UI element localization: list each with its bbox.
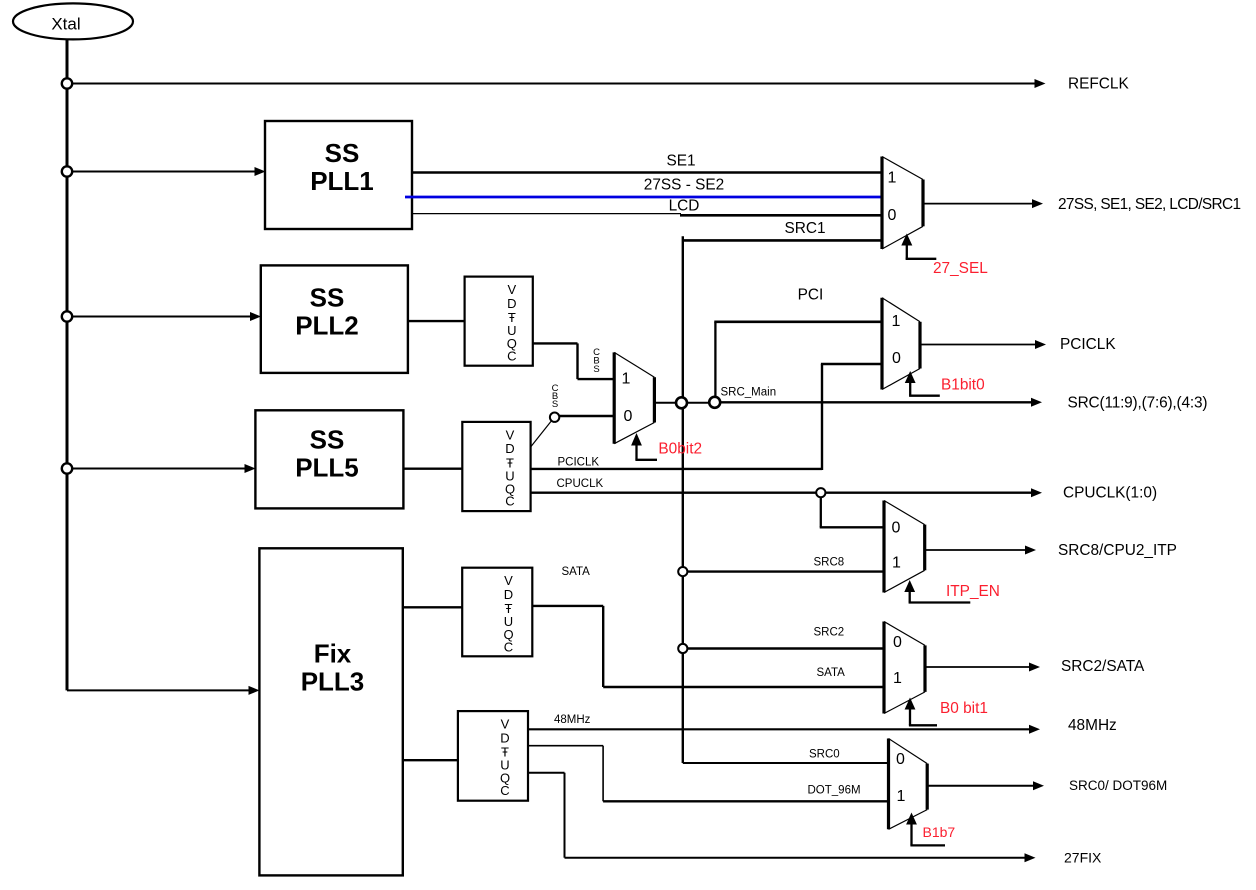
- svg-text:SATA: SATA: [817, 667, 846, 679]
- junction on Xtal bus at REFCLK: [62, 78, 72, 88]
- wire U4 output: [925, 546, 1036, 555]
- svg-text:SS: SS: [310, 425, 345, 455]
- mux U1 (27_SEL mux): [882, 157, 923, 250]
- wire U5 output: [925, 663, 1040, 672]
- wire 27SS - SE2 (blue): [405, 196, 882, 199]
- wire B1b7 select: [906, 813, 945, 846]
- svg-text:SRC0: SRC0: [809, 749, 840, 761]
- wire SRC1: [683, 239, 882, 242]
- svg-text:SRC2: SRC2: [814, 627, 845, 639]
- wire divider U7 output to mux U2 input 1: [533, 343, 614, 379]
- junction on Xtal bus at PLL2 tap: [62, 311, 72, 321]
- wire U3 output PCICLK: [920, 340, 1046, 349]
- block SS PLL5: [255, 410, 403, 508]
- wire CPUCLK tap to mux U4 input 0: [820, 497, 883, 528]
- svg-text:1: 1: [622, 371, 631, 388]
- svg-text:48MHz: 48MHz: [1068, 717, 1117, 734]
- wire SE1: [412, 171, 882, 174]
- svg-text:27SS, SE1, SE2, LCD/SRC1: 27SS, SE1, SE2, LCD/SRC1: [1058, 196, 1241, 213]
- svg-text:S: S: [593, 364, 599, 375]
- wire Xtal to SS PLL5: [67, 464, 256, 473]
- wire Xtal to SS PLL2: [67, 312, 261, 321]
- wire B0bit2 select: [631, 433, 657, 460]
- node Xtal (crystal oscillator bubble): [13, 3, 133, 39]
- svg-text:C: C: [507, 348, 516, 363]
- svg-text:B0 bit1: B0 bit1: [940, 700, 988, 717]
- svg-text:B1b7: B1b7: [923, 824, 956, 840]
- wire SRC0 from bus corner to mux U6 input 0: [683, 762, 889, 764]
- svg-text:PLL2: PLL2: [295, 310, 359, 340]
- wire B0 bit1 select: [905, 698, 937, 726]
- svg-text:PLL1: PLL1: [310, 166, 374, 196]
- node SRC_Main junction: [709, 397, 720, 408]
- wire Xtal to Fix PLL3: [67, 686, 260, 695]
- svg-text:C: C: [500, 783, 509, 798]
- wire SS PLL2 to divider U7: [408, 320, 465, 322]
- svg-text:1: 1: [892, 313, 901, 330]
- svg-text:PCI: PCI: [798, 287, 824, 304]
- wire U6 output: [927, 781, 1044, 790]
- block Fix PLL3: [259, 548, 402, 875]
- mux U4 (ITP_EN mux): [884, 501, 925, 593]
- svg-text:27SS - SE2: 27SS - SE2: [644, 177, 724, 194]
- wire B1bit0 select: [905, 371, 940, 396]
- svg-text:D: D: [507, 296, 516, 311]
- svg-text:27_SEL: 27_SEL: [933, 260, 988, 277]
- junction on SRC bus at SRC8: [678, 567, 687, 576]
- wire into mux U2 input 0: [559, 415, 614, 417]
- junction on Xtal bus at PLL5 tap: [62, 463, 72, 473]
- svg-text:SRC(11:9),(7:6),(4:3): SRC(11:9),(7:6),(4:3): [1068, 394, 1208, 411]
- svg-text:0: 0: [892, 350, 901, 367]
- svg-text:SRC1: SRC1: [784, 220, 825, 237]
- wire Fix PLL3 to divider U10: [403, 759, 458, 761]
- svg-text:SATA: SATA: [562, 566, 591, 578]
- wire ITP_EN select: [904, 580, 970, 603]
- svg-text:1: 1: [892, 555, 901, 572]
- wire SRC2 from bus to mux U5 input 0: [683, 647, 884, 649]
- svg-text:1: 1: [888, 169, 897, 186]
- svg-text:0: 0: [892, 520, 901, 537]
- label CBS stack at U2 input 0: [552, 383, 559, 410]
- wire Xtal vertical bus: [66, 39, 69, 690]
- wire U1 output: [923, 199, 1043, 208]
- svg-text:PLL5: PLL5: [295, 453, 359, 483]
- divider U9 (SATA OUTDIV): [462, 568, 532, 657]
- svg-text:PCICLK: PCICLK: [558, 457, 600, 469]
- divider U10 (48MHz OUTDIV): [458, 711, 528, 801]
- svg-text:Xtal: Xtal: [51, 14, 80, 33]
- svg-text:B0bit2: B0bit2: [658, 440, 702, 457]
- junction bubble at U2 input 0: [550, 413, 559, 422]
- divider U7 (OUTDIV of PLL2): [465, 277, 533, 366]
- svg-text:D: D: [500, 730, 509, 745]
- block SS PLL2: [261, 265, 408, 373]
- wire diagonal from divider U8 to bubble: [531, 421, 552, 447]
- svg-text:1: 1: [893, 670, 902, 687]
- svg-text:D: D: [504, 587, 513, 602]
- svg-text:D: D: [505, 441, 514, 456]
- svg-text:SRC_Main: SRC_Main: [721, 387, 777, 399]
- wire PCI (SRC_Main up to mux U3 input 1): [714, 322, 882, 398]
- mux U6 (B1b7 mux): [889, 739, 928, 830]
- svg-text:PLL3: PLL3: [301, 666, 365, 696]
- wire SRC8 from bus to mux U4 input 1: [683, 570, 883, 572]
- block SS PLL1: [265, 121, 412, 229]
- wire 27_SEL select: [901, 234, 936, 259]
- divider U8 (OUTDIV of PLL5): [462, 422, 530, 511]
- wire vertical SRC bus: [682, 236, 684, 763]
- svg-text:SS: SS: [310, 283, 345, 313]
- wire 48MHz: [529, 725, 1040, 734]
- wire Fix PLL3 to divider U9: [403, 606, 462, 608]
- svg-text:27FIX: 27FIX: [1064, 850, 1102, 866]
- svg-text:LCD: LCD: [669, 198, 700, 215]
- svg-text:0: 0: [896, 751, 905, 768]
- svg-text:48MHz: 48MHz: [554, 714, 591, 726]
- svg-text:REFCLK: REFCLK: [1068, 76, 1129, 93]
- wire 27FIX from divider U10: [529, 773, 1036, 863]
- wire LCD thick segment to mux: [680, 214, 882, 217]
- svg-text:1: 1: [897, 788, 906, 805]
- svg-text:Fix: Fix: [314, 639, 352, 669]
- wire SS PLL5 to divider U8: [403, 468, 462, 470]
- wire Xtal to SS PLL1: [67, 167, 266, 176]
- mux U5 (B0 bit1 mux): [884, 622, 925, 714]
- svg-text:DOT_96M: DOT_96M: [808, 785, 861, 797]
- svg-text:SRC8: SRC8: [814, 557, 845, 569]
- junction on CPUCLK wire: [816, 488, 825, 497]
- wire CPUCLK from divider U8: [531, 488, 1042, 497]
- wire LCD thin segment: [412, 213, 681, 215]
- svg-text:CPUCLK(1:0): CPUCLK(1:0): [1063, 485, 1157, 502]
- svg-text:PCICLK: PCICLK: [1060, 336, 1116, 353]
- svg-text:SE1: SE1: [666, 153, 695, 170]
- wire REFCLK: [67, 79, 1046, 88]
- wire DOT_96M from divider U10 to mux U6 input 1: [529, 746, 889, 802]
- svg-text:SRC2/SATA: SRC2/SATA: [1061, 658, 1145, 675]
- label CBS stack at U2 input 1: [593, 347, 600, 375]
- wire PCICLK from divider U8 to mux U3 input 0: [531, 364, 882, 470]
- svg-text:C: C: [504, 639, 513, 654]
- svg-text:0: 0: [893, 634, 902, 651]
- junction on Xtal bus at PLL1 tap: [62, 166, 72, 176]
- wire SRC_Main to output arrow: [719, 398, 1042, 407]
- svg-text:SS: SS: [325, 138, 360, 168]
- svg-text:C: C: [505, 494, 514, 509]
- junction on SRC bus at SRC2: [678, 644, 687, 653]
- svg-text:ITP_EN: ITP_EN: [946, 583, 1000, 600]
- svg-text:SRC0/ DOT96M: SRC0/ DOT96M: [1069, 778, 1167, 793]
- svg-text:CPUCLK: CPUCLK: [557, 478, 604, 490]
- svg-text:0: 0: [888, 207, 897, 224]
- junction node on SRC bus at U2 output: [676, 397, 687, 408]
- svg-text:S: S: [552, 399, 558, 410]
- wire SATA from divider U9 to mux U5 input 1: [532, 606, 884, 687]
- svg-text:SRC8/CPU2_ITP: SRC8/CPU2_ITP: [1058, 542, 1177, 559]
- svg-text:B1bit0: B1bit0: [941, 377, 985, 394]
- svg-text:0: 0: [624, 408, 633, 425]
- wire U2 output to SRC_Main node: [654, 402, 714, 404]
- mux U3 (B1bit0 PCI mux): [882, 298, 920, 390]
- mux U2 (B0bit2 mux): [614, 352, 654, 443]
